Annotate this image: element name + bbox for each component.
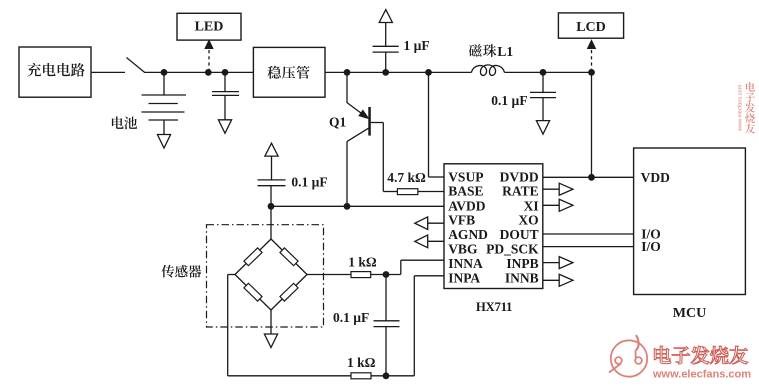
node AVDD left junction — [268, 203, 275, 210]
svg-text:VSUP: VSUP — [448, 170, 483, 185]
wire AVDD rail — [271, 205, 444, 207]
svg-text:4.7 kΩ: 4.7 kΩ — [387, 170, 426, 185]
svg-text:VBG: VBG — [448, 242, 478, 257]
svg-text:AVDD: AVDD — [448, 198, 486, 213]
inductor L1 magnetic bead — [472, 65, 505, 76]
LED indicator dashed arrow — [208, 48, 210, 72]
wire regulator to inductor — [325, 71, 472, 73]
MCU block — [634, 148, 746, 295]
svg-text:VFB: VFB — [448, 212, 475, 227]
wire bridge left arm down — [228, 274, 235, 276]
svg-text:LCD: LCD — [576, 20, 606, 35]
LCD dashed arrow — [591, 48, 593, 72]
wire AVDD down to bridge — [270, 206, 272, 239]
wire to INNA pin — [400, 260, 402, 274]
svg-text:1 kΩ: 1 kΩ — [348, 255, 377, 270]
LCD block — [558, 13, 623, 38]
wire LCD junction down to DVDD — [591, 72, 593, 177]
svg-text:INNA: INNA — [448, 256, 483, 271]
VFB output arrow — [428, 222, 444, 224]
svg-text:BASE: BASE — [448, 184, 483, 199]
XI arrow — [543, 204, 559, 206]
svg-text:RATE: RATE — [502, 184, 539, 199]
capacitor C2 1uF — [385, 52, 387, 72]
op-amp/ADC U1 HX711 block — [444, 164, 543, 289]
wire DVDD to MCU VDD — [543, 176, 634, 178]
svg-text:VDD: VDD — [641, 170, 670, 185]
wire charge box to switch — [91, 71, 125, 73]
wire PD_SCK to MCU — [543, 246, 634, 248]
svg-text:INNB: INNB — [505, 271, 539, 286]
resistor R3 1k — [351, 373, 371, 379]
node battery junction — [161, 69, 168, 76]
INPB arrow — [543, 262, 559, 264]
label 磁珠L1 — [469, 44, 482, 57]
svg-text:XO: XO — [518, 212, 538, 227]
INNB arrow — [543, 279, 559, 281]
label 传感器 — [161, 265, 174, 278]
svg-text:DVDD: DVDD — [500, 170, 539, 185]
wire bottom — [228, 375, 351, 377]
ground below bridge — [264, 334, 277, 348]
svg-text:XI: XI — [524, 198, 539, 213]
node INPA junction — [383, 372, 390, 379]
transistor Q1 — [346, 72, 348, 103]
svg-text:PD_SCK: PD_SCK — [486, 242, 539, 257]
node INNA junction — [383, 271, 390, 278]
svg-text:0.1 µF: 0.1 µF — [333, 310, 369, 325]
wire inductor to LCD junction — [505, 71, 592, 73]
svg-text:HX711: HX711 — [476, 300, 512, 314]
capacitor C1 — [224, 72, 226, 91]
svg-text:DOUT: DOUT — [500, 227, 539, 242]
power arrow above C2 — [379, 10, 392, 23]
wire DOUT to MCU — [543, 233, 634, 235]
wire VSUP — [428, 72, 430, 177]
battery label 电池 — [112, 116, 124, 128]
svg-text:www.elecfans.com: www.elecfans.com — [652, 369, 751, 381]
node LED junction — [205, 69, 212, 76]
node input-cap junction — [222, 69, 229, 76]
watermark logo bottom right — [609, 335, 647, 377]
sensor dashed box 传感器 — [207, 225, 324, 327]
AGND output arrow — [428, 240, 444, 242]
svg-text:0.1 µF: 0.1 µF — [491, 93, 527, 108]
RATE arrow — [543, 188, 559, 190]
ground below C1 — [218, 120, 231, 134]
battery B1 — [163, 72, 165, 95]
svg-text:www.elecfans.com: www.elecfans.com — [738, 84, 744, 132]
LED block — [177, 13, 241, 40]
node bypass junction — [540, 69, 547, 76]
node Q1 emitter junction — [344, 69, 351, 76]
node 1uF junction — [382, 69, 389, 76]
wire to INPA pin — [413, 276, 415, 376]
svg-text:INPB: INPB — [506, 256, 538, 271]
wire bridge to ground — [270, 310, 272, 334]
svg-text:1 kΩ: 1 kΩ — [347, 355, 376, 370]
capacitor C3 0.1uF — [542, 72, 544, 92]
switch S1 — [127, 58, 145, 73]
ground below C3 — [536, 121, 549, 135]
capacitor C5 0.1uF — [385, 275, 387, 321]
resistor R1 4.7k — [383, 191, 397, 193]
watermark right edge — [746, 82, 755, 92]
charging-circuit block 充电电路 — [19, 47, 91, 97]
svg-text:AGND: AGND — [448, 227, 488, 242]
resistor R2 1k — [351, 272, 371, 278]
svg-text:0.1 µF: 0.1 µF — [291, 175, 327, 190]
svg-text:1 µF: 1 µF — [404, 38, 430, 53]
capacitor C4 0.1uF — [271, 156, 273, 180]
svg-text:MCU: MCU — [673, 306, 706, 321]
svg-text:LED: LED — [195, 20, 224, 35]
svg-text:Q1: Q1 — [329, 114, 347, 129]
node AVDD collector junction — [344, 203, 351, 210]
svg-text:L1: L1 — [497, 44, 513, 59]
node VSUP junction — [425, 69, 432, 76]
power arrow above sensor cap — [265, 143, 278, 156]
voltage regulator block 稳压管 — [253, 47, 325, 97]
svg-text:INPA: INPA — [448, 271, 480, 286]
node LCD junction — [588, 69, 595, 76]
wire bridge right to R2 — [307, 274, 351, 276]
svg-text:I/O: I/O — [641, 239, 661, 254]
node DVDD junction — [588, 174, 595, 181]
bridge sensor resistors — [235, 239, 271, 275]
wire switch to regulator — [144, 71, 253, 73]
ground below battery — [157, 135, 170, 149]
